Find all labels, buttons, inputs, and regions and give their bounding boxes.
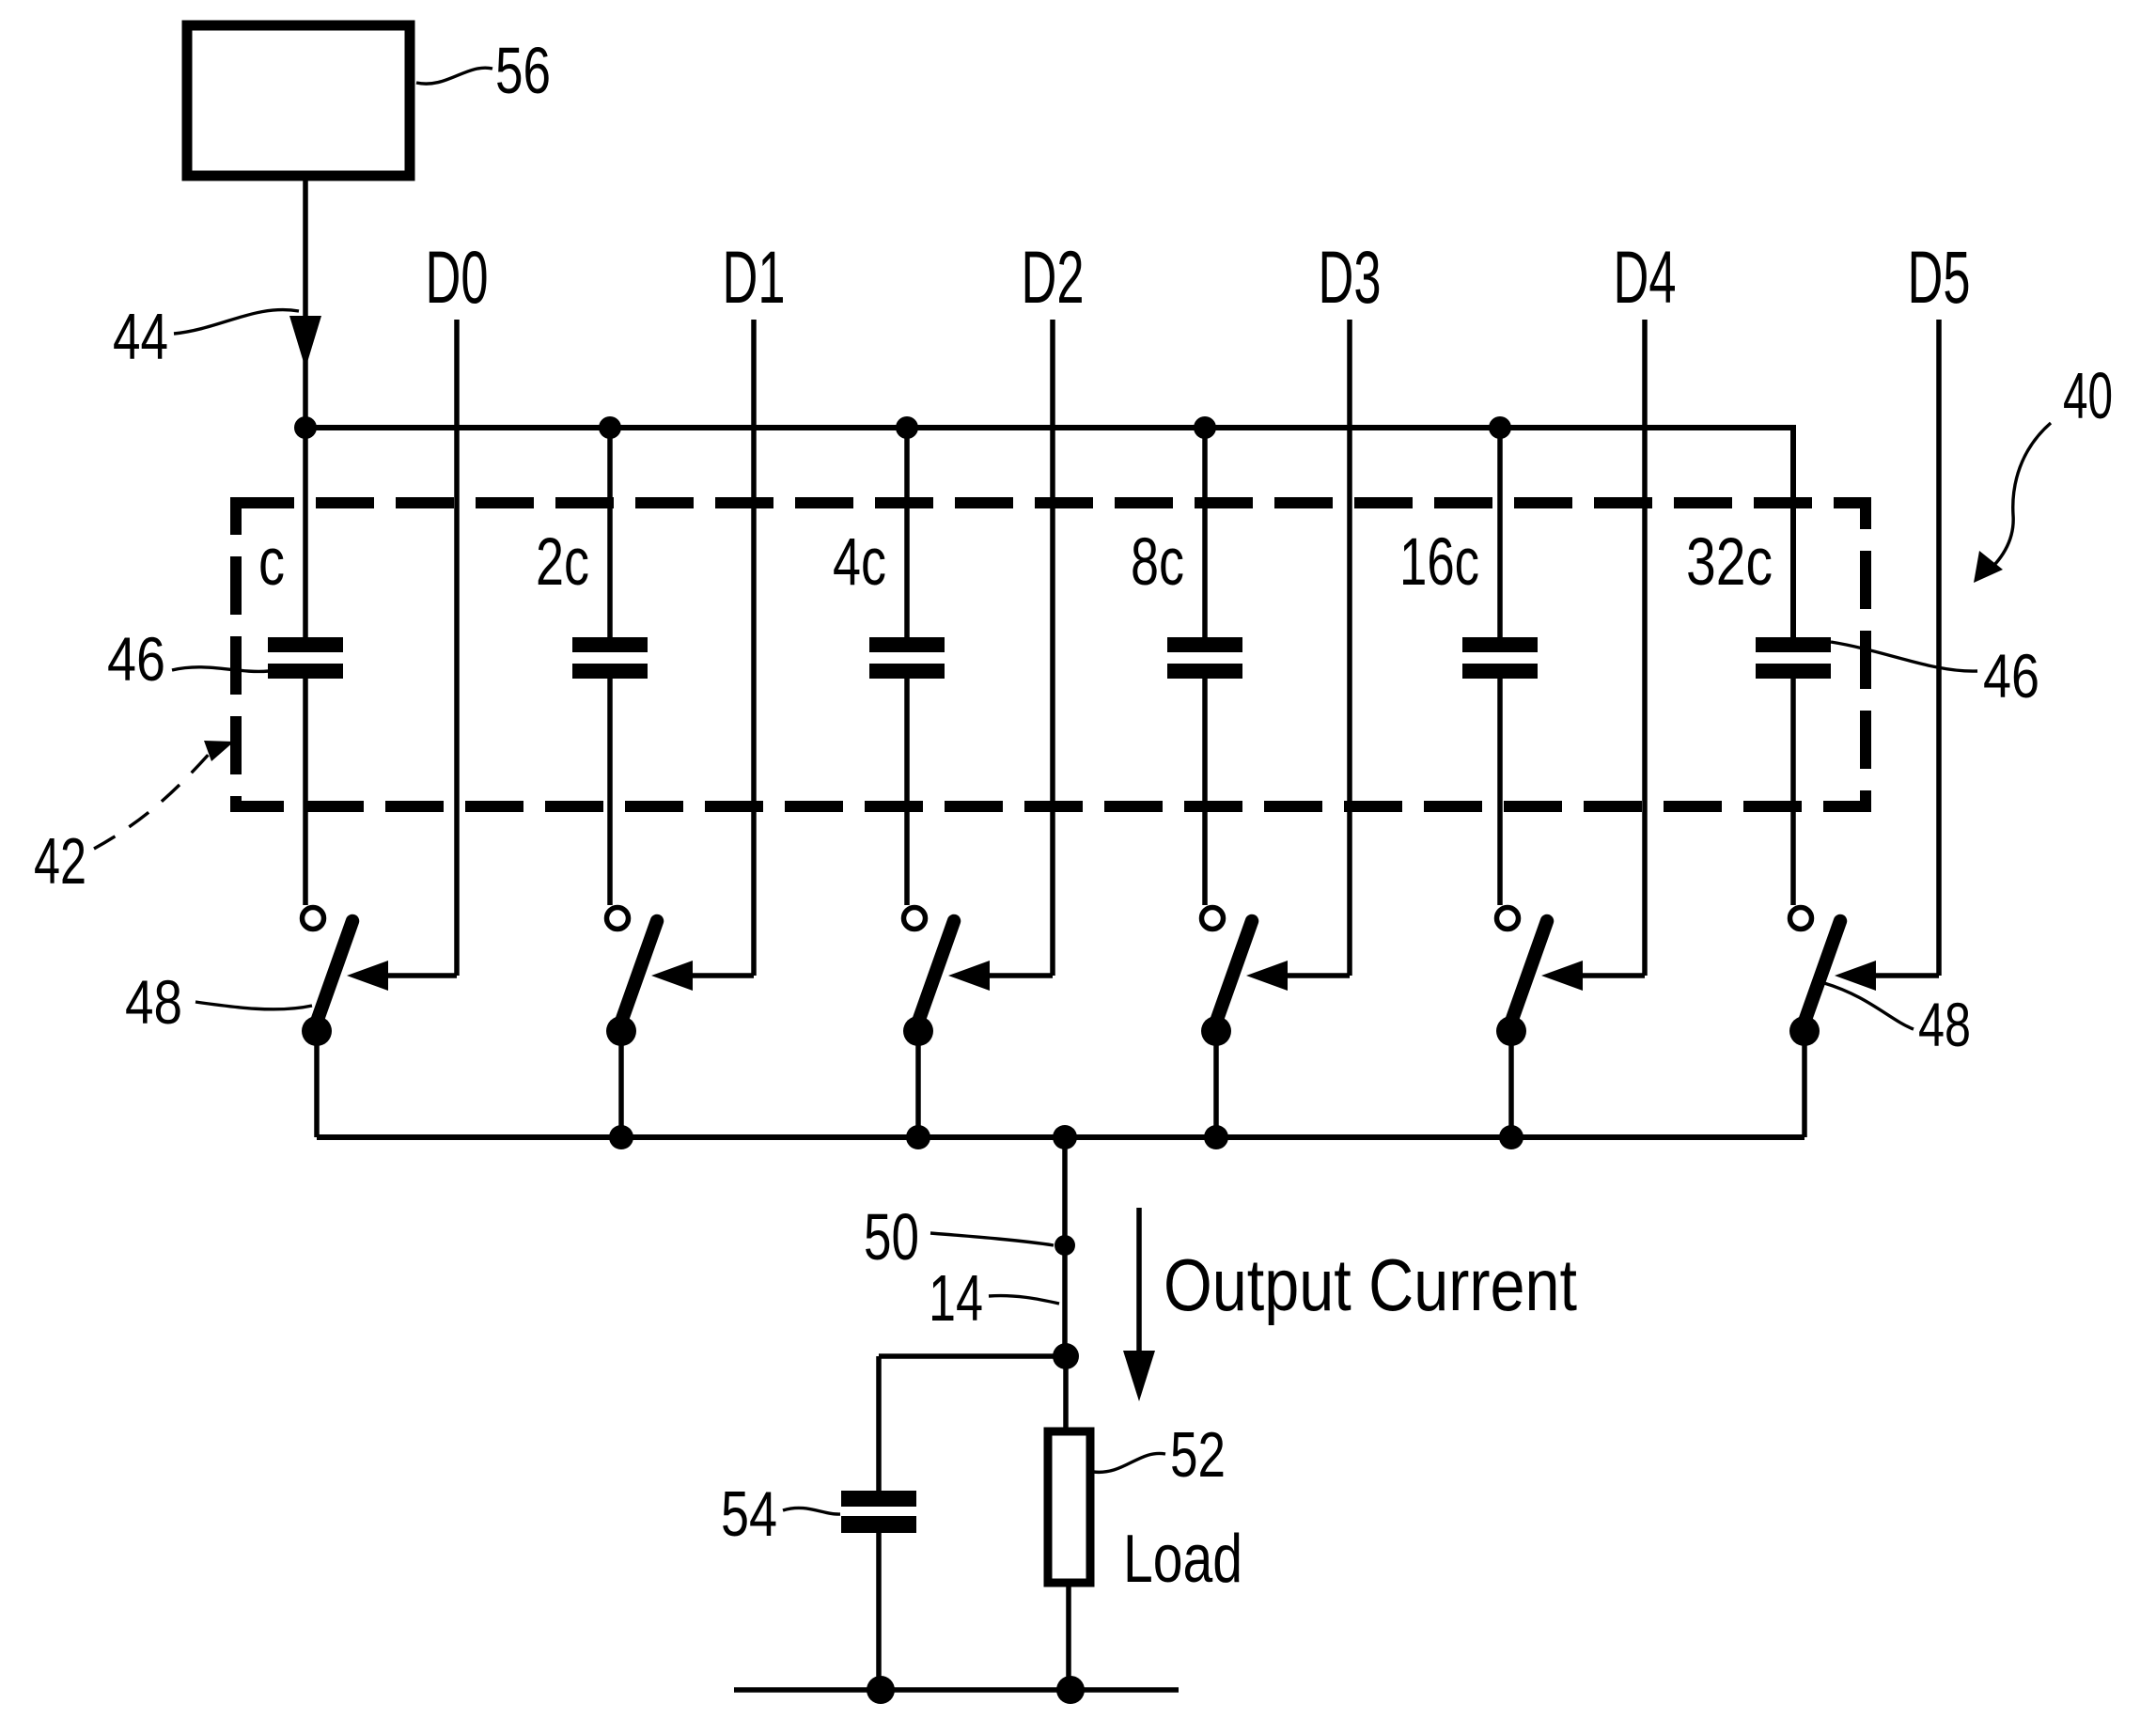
svg-text:D5: D5 bbox=[1908, 235, 1971, 319]
svg-text:Output Current: Output Current bbox=[1164, 1243, 1577, 1326]
svg-text:D3: D3 bbox=[1319, 235, 1382, 319]
svg-text:16c: 16c bbox=[1399, 525, 1479, 600]
svg-text:D2: D2 bbox=[1022, 235, 1085, 319]
svg-text:32c: 32c bbox=[1686, 525, 1773, 600]
svg-text:48: 48 bbox=[1918, 990, 1971, 1059]
svg-text:D1: D1 bbox=[723, 235, 786, 319]
svg-text:4c: 4c bbox=[833, 525, 886, 600]
svg-text:D4: D4 bbox=[1614, 235, 1677, 319]
svg-text:50: 50 bbox=[864, 1200, 919, 1274]
svg-text:Load: Load bbox=[1123, 1522, 1242, 1597]
svg-text:8c: 8c bbox=[1131, 525, 1184, 600]
svg-text:46: 46 bbox=[107, 624, 165, 694]
svg-text:c: c bbox=[258, 525, 285, 600]
svg-text:56: 56 bbox=[495, 34, 551, 107]
svg-text:2c: 2c bbox=[536, 525, 589, 600]
svg-text:14: 14 bbox=[929, 1261, 983, 1335]
svg-text:52: 52 bbox=[1170, 1419, 1226, 1491]
svg-text:40: 40 bbox=[2063, 359, 2113, 432]
svg-text:46: 46 bbox=[1983, 641, 2039, 711]
svg-text:54: 54 bbox=[721, 1478, 777, 1550]
svg-text:48: 48 bbox=[125, 967, 182, 1037]
svg-text:D0: D0 bbox=[426, 235, 489, 319]
svg-text:44: 44 bbox=[113, 300, 168, 373]
svg-text:42: 42 bbox=[34, 824, 86, 898]
